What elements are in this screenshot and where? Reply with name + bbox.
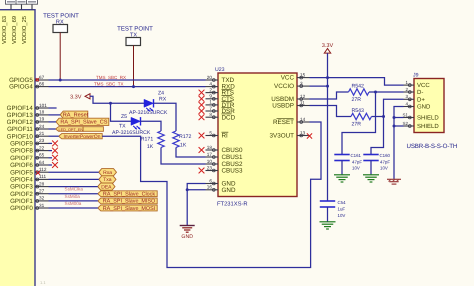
svg-text:GPIOF12: GPIOF12 (7, 119, 34, 126)
svg-text:S2: S2 (402, 121, 408, 126)
wire GPIOF3 to DEA (49, 186, 98, 188)
pin GPIOF9 (23) (10, 138, 48, 147)
test point TX lead wire (133, 46, 135, 87)
test point RX lead wire (59, 33, 61, 81)
wire USBDP to R543 (310, 106, 352, 117)
svg-text:RA_SPI_Slave_MOSI: RA_SPI_Slave_MOSI (103, 206, 155, 212)
pin name VDDIO_83 (1, 16, 8, 44)
svg-text:GPIOF9: GPIOF9 (10, 141, 33, 148)
pin GPIOF11 (24) (7, 124, 48, 133)
LED Z5 (131, 117, 141, 130)
no-ERC DTR (199, 102, 205, 108)
pin GPIOF5 (112) (10, 167, 48, 176)
svg-text:24: 24 (39, 124, 45, 129)
svg-text:23: 23 (207, 165, 213, 170)
svg-text:GPIOF2: GPIOF2 (10, 191, 33, 198)
capacitor C160 label (380, 153, 391, 171)
resistor R172 label (179, 134, 192, 149)
svg-text:9: 9 (209, 94, 212, 99)
resistor R543 (351, 113, 372, 119)
resistor R172 (173, 131, 179, 148)
junction D+ (382, 115, 385, 118)
svg-text:GPIOF6: GPIOF6 (10, 162, 33, 169)
junction VCC (326, 76, 329, 79)
svg-text:15: 15 (300, 72, 306, 77)
svg-text:RI: RI (222, 133, 229, 140)
svg-text:GPIOF7: GPIOF7 (10, 155, 33, 162)
LED Z4 (144, 99, 154, 112)
connector J9 designator (413, 73, 419, 79)
svg-text:R171: R171 (141, 136, 154, 142)
U23 pin 10 CBUS2 (206, 159, 243, 168)
wire C161 to gnd (341, 161, 343, 175)
wire USB GND down (394, 107, 404, 180)
svg-text:R542: R542 (352, 84, 365, 90)
no-ERC GPIOF6 (49, 162, 58, 168)
svg-text:101: 101 (39, 103, 47, 108)
wire GPIOF1 to MISO (49, 200, 98, 202)
svg-text:18: 18 (207, 145, 213, 150)
U23 pin 11 USBDP (272, 100, 309, 109)
svg-text:19: 19 (39, 117, 45, 122)
svg-text:DCD: DCD (222, 114, 236, 121)
svg-text:GPIOF3: GPIOF3 (10, 184, 33, 191)
port RA_Reset (60, 111, 88, 118)
pin GPIOF8 (22) (10, 145, 48, 154)
svg-text:TEST POINT: TEST POINT (117, 26, 153, 33)
test point TX label (117, 26, 153, 39)
svg-text:20: 20 (207, 75, 213, 80)
J9 pin 2 D- (404, 87, 424, 96)
svg-text:2: 2 (209, 87, 212, 92)
wire GPIOF10 to InverterPowerOn (49, 135, 59, 137)
wire to GND symbol (186, 190, 188, 225)
svg-text:S1: S1 (402, 112, 408, 117)
pin GPIOF4 (111) (10, 174, 48, 183)
svg-text:11: 11 (300, 100, 305, 105)
U23 pin 13 3V3OUT (270, 130, 310, 139)
no-ERC RTS (199, 90, 205, 96)
port RA_SPI_Slave_Clock (98, 191, 157, 198)
U23 pin 2 RTS (206, 87, 234, 96)
svg-text:3: 3 (300, 81, 303, 86)
no-ERC DCD (199, 114, 205, 120)
port RA_SPI_Slave_MISO (98, 198, 157, 205)
J9 pin S2 SHIELD (402, 121, 439, 130)
svg-text:22: 22 (39, 145, 45, 150)
port RA_SPI_Slave_CS (56, 118, 109, 125)
svg-text:VCC: VCC (281, 75, 295, 82)
wire GPIOF2 to Clock (49, 193, 98, 195)
U23 pin 4 RXD (206, 81, 236, 90)
svg-text:10V: 10V (352, 166, 360, 171)
svg-text:D+: D+ (417, 96, 425, 103)
wire R172 to CBUS1 (176, 148, 206, 158)
svg-text:18: 18 (39, 110, 45, 115)
U23 pin 17 CBUS1 (206, 152, 243, 161)
pin name VDDIO_25 (21, 16, 28, 44)
svg-text:RA_SPI_Slave_CS: RA_SPI_Slave_CS (60, 120, 107, 126)
svg-text:10V: 10V (380, 166, 388, 171)
svg-text:1: 1 (209, 100, 212, 105)
connector J9 body (414, 79, 444, 133)
U23 pin 23 CBUS3 (206, 165, 243, 174)
junction GND (186, 188, 189, 191)
MCU connector U1 body (0, 10, 35, 286)
capacitor C160 (363, 155, 378, 161)
junction testpoint TX (132, 85, 135, 88)
LED Z4 designator (158, 91, 167, 103)
ground C161 (334, 175, 350, 182)
svg-text:GND: GND (222, 187, 236, 194)
port LED_OPT_EN (56, 127, 104, 132)
svg-text:65: 65 (39, 153, 45, 158)
svg-text:RA_SPI_Slave_MISO: RA_SPI_Slave_MISO (103, 199, 155, 205)
svg-text:4: 4 (209, 81, 212, 86)
no-ERC CBUS3 (199, 168, 205, 174)
U23 pin 1 DTR (206, 100, 235, 109)
svg-text:RA_SPI_Slave_Clock: RA_SPI_Slave_Clock (103, 192, 155, 198)
U23 pin 3 VCCIO (274, 81, 309, 90)
wire GPIOF4 to Txa (49, 178, 99, 180)
U23 pin 9 CTS (206, 94, 235, 103)
svg-text:31: 31 (39, 203, 45, 208)
svg-text:CBUS1: CBUS1 (222, 154, 243, 161)
wire to LED Z5 (111, 103, 132, 121)
svg-text:67: 67 (39, 75, 45, 80)
svg-text:7: 7 (209, 106, 212, 111)
port Rxa (99, 169, 117, 176)
svg-text:VCCIO: VCCIO (274, 83, 294, 90)
pin GPIOF10 (21) (7, 131, 49, 140)
pin VDDIO 25 (top) (27, 0, 38, 10)
svg-text:3.3V: 3.3V (70, 94, 82, 100)
pin GPIOG4 (66) (9, 81, 48, 90)
J9 pin S1 SHIELD (402, 112, 439, 121)
net label SsMiso (65, 194, 81, 199)
no-ERC CTS (199, 96, 205, 102)
IC U23 part FT231XS-R (217, 200, 248, 207)
wire C54 to gnd (327, 207, 329, 222)
junction S2 (393, 125, 396, 128)
wire USBDM to R542 (310, 92, 349, 99)
port Txa (99, 176, 116, 183)
svg-text:6: 6 (209, 178, 212, 183)
pin GPIOF6 (64) (10, 160, 48, 169)
wire 3.3V rail down (327, 53, 329, 201)
svg-text:13: 13 (300, 130, 306, 135)
test point TX pad (126, 38, 141, 46)
wire GPIOF11 to LED_OPT_EN (49, 128, 56, 130)
wire GPIOF0 to MOSI (49, 207, 98, 209)
wire GPIOG4 to RXD (49, 86, 206, 88)
capacitor C54 label (338, 200, 347, 218)
net label TMS_SBC_TX (94, 82, 124, 87)
faint text (40, 280, 46, 285)
svg-text:17: 17 (207, 152, 213, 157)
U23 pin 8 DCD (206, 112, 236, 121)
svg-text:TMS_SBC_TX: TMS_SBC_TX (94, 82, 124, 87)
svg-text:SHIELD: SHIELD (417, 115, 439, 122)
port DEA (98, 183, 115, 190)
wire VCCIO (310, 85, 328, 87)
no-ERC GPIOF7 (49, 155, 58, 161)
svg-text:TMS_SBC_RX: TMS_SBC_RX (96, 75, 126, 80)
net label TMS_SBC_RX (96, 75, 126, 80)
junction LED rail (109, 102, 112, 105)
power port 3.3V left (70, 94, 90, 101)
svg-text:SsMClka: SsMClka (65, 187, 84, 192)
svg-text:SsM00a: SsM00a (65, 201, 82, 206)
svg-text:AP-3216SURCK: AP-3216SURCK (129, 110, 168, 116)
wire C160 to gnd (370, 161, 372, 175)
svg-text:GPIOF1: GPIOF1 (10, 198, 33, 205)
svg-text:R172: R172 (179, 134, 192, 140)
svg-text:27R: 27R (352, 97, 362, 103)
capacitor C161 (334, 155, 349, 161)
wire U23 GND pins (187, 184, 205, 190)
wire D+ to C160 (371, 117, 384, 155)
svg-text:RESET: RESET (273, 119, 294, 126)
power port 3.3V right (322, 43, 334, 53)
wire Z5 cathode to R171 (141, 121, 162, 131)
wire R171 to CBUS2 (161, 148, 206, 165)
svg-text:Txa: Txa (103, 177, 112, 183)
svg-text:GPIOF10: GPIOF10 (7, 133, 34, 140)
svg-text:AP-3216SURCK: AP-3216SURCK (112, 130, 151, 136)
resistor R171 (158, 131, 164, 148)
pin GPIOF7 (65) (10, 153, 48, 162)
resistor R542 label (352, 84, 365, 104)
no-ERC GPIOF8 (49, 148, 58, 154)
svg-text:14: 14 (300, 117, 306, 122)
svg-text:VDDIO_25: VDDIO_25 (21, 16, 28, 44)
svg-text:1K: 1K (147, 144, 154, 150)
svg-text:C54: C54 (338, 200, 347, 205)
capacitor C161 label (351, 153, 363, 171)
LED Z4 part AP-3216SURCK (129, 110, 168, 116)
test point RX label (43, 13, 79, 26)
wire R543 to D+ (372, 99, 404, 116)
svg-text:64: 64 (39, 160, 45, 165)
resistor R171 label (141, 136, 154, 149)
svg-text:GPIOF0: GPIOF0 (10, 205, 33, 212)
wire Z4 cathode to R172 (154, 103, 177, 131)
svg-text:USBR-B-S-S-O-TH: USBR-B-S-S-O-TH (407, 143, 458, 150)
no-ERC DSR (199, 108, 205, 114)
wire R542 to D- (369, 91, 404, 93)
J9 pin 3 D+ (404, 94, 426, 103)
net label SsMosi (65, 201, 82, 206)
wire GPIOF14 stub (49, 107, 57, 109)
svg-text:C160: C160 (380, 153, 391, 158)
svg-text:USBDP: USBDP (272, 103, 294, 110)
svg-text:VCC: VCC (417, 82, 430, 89)
U23 pin 16 GND (206, 185, 236, 194)
svg-text:GPIOF8: GPIOF8 (10, 148, 33, 155)
pin name VDDIO_69 (11, 16, 18, 44)
svg-text:28: 28 (39, 181, 45, 186)
svg-text:Z5: Z5 (121, 114, 127, 120)
svg-text:RA_Reset: RA_Reset (63, 113, 89, 119)
U23 pin 14 RESET (273, 117, 310, 126)
ground C54 (320, 222, 336, 229)
ground GND symbol (180, 226, 195, 240)
U23 pin 12 USBDM (271, 94, 309, 103)
U23 pin 5 RI (206, 130, 229, 139)
junction D- (374, 91, 377, 94)
net label SsMClk (65, 187, 84, 192)
pin GPIOF3 (28) (10, 181, 48, 190)
svg-text:1.1: 1.1 (40, 280, 46, 285)
wire D- to C161 (342, 92, 376, 154)
svg-text:1uF: 1uF (338, 207, 346, 212)
svg-text:GND: GND (181, 234, 193, 240)
svg-text:16: 16 (207, 185, 213, 190)
pin GPIOF12 (19) (7, 117, 49, 126)
wire InverterPowerOn to RESET (102, 122, 321, 268)
pin GPIOF13 (18) (7, 110, 49, 119)
LED Z5 part AP-3216SURCK (112, 130, 151, 136)
resistor R543 label (352, 108, 365, 128)
port RA_SPI_Slave_MOSI (98, 205, 157, 212)
U23 pin 18 CBUS0 (206, 145, 243, 154)
chassis ground (387, 179, 401, 184)
svg-text:27: 27 (39, 189, 45, 194)
pin VDDIO 83 (top) (6, 0, 17, 10)
U23 pin 15 VCC (281, 72, 310, 81)
no-ERC RI (199, 133, 205, 139)
svg-text:SHIELD: SHIELD (417, 123, 439, 130)
svg-text:D-: D- (417, 89, 423, 96)
no-ERC mark GPIOF5 (36, 171, 40, 175)
svg-text:GND: GND (417, 104, 431, 111)
svg-text:R543: R543 (352, 108, 365, 114)
wire GPIOF5 to Rxa (49, 171, 99, 173)
svg-text:GPIOF4: GPIOF4 (10, 177, 33, 184)
svg-text:DEA: DEA (101, 184, 112, 190)
svg-text:8: 8 (209, 112, 212, 117)
no-ERC GPIOF9 (49, 141, 58, 147)
capacitor C54 (320, 201, 335, 207)
svg-text:GPIOF13: GPIOF13 (7, 112, 34, 119)
svg-text:27R: 27R (352, 122, 362, 128)
svg-text:Rxa: Rxa (103, 170, 112, 176)
svg-text:TX: TX (119, 124, 126, 130)
junction S1 (393, 116, 396, 119)
svg-text:CBUS0: CBUS0 (222, 147, 243, 154)
svg-text:10: 10 (207, 159, 213, 164)
port InverterPowerOn (59, 134, 102, 140)
LED Z5 designator (119, 114, 127, 130)
pin VDDIO 69 (top) (16, 0, 27, 10)
svg-text:23: 23 (39, 138, 45, 143)
svg-text:GPIOG4: GPIOG4 (9, 84, 33, 91)
svg-text:12: 12 (300, 94, 306, 99)
svg-text:TEST POINT: TEST POINT (43, 13, 79, 20)
wire VCC to USB VCC (310, 78, 404, 86)
svg-text:1K: 1K (180, 143, 187, 149)
svg-text:VDDIO_83: VDDIO_83 (1, 16, 8, 44)
svg-text:LED_OPT_EN: LED_OPT_EN (58, 128, 83, 132)
svg-text:10V: 10V (338, 213, 346, 218)
svg-text:J9: J9 (413, 73, 419, 79)
IC U23 designator (215, 67, 225, 73)
wire SHIELD S1 (394, 117, 404, 119)
svg-text:111: 111 (39, 174, 47, 179)
wire GPIOF12 to CS (49, 121, 57, 123)
svg-text:GPIOF11: GPIOF11 (7, 126, 33, 133)
pin GPIOF14 (101) (7, 103, 49, 112)
connector J9 part USBR-B-S-S-O-TH (407, 143, 458, 150)
svg-text:SsMi0a: SsMi0a (65, 194, 81, 199)
resistor R542 (349, 89, 370, 95)
no-ERC CBUS0 (199, 147, 205, 153)
U23 pin 7 DSR (206, 106, 236, 115)
svg-text:21: 21 (39, 131, 45, 136)
svg-text:66: 66 (39, 81, 45, 86)
svg-text:3V3OUT: 3V3OUT (270, 133, 295, 140)
wire 3.3V to LED rail (90, 96, 144, 103)
J9 pin 4 GND (404, 101, 432, 110)
svg-text:RX: RX (159, 97, 167, 103)
J9 pin 1 VCC (404, 80, 431, 89)
svg-text:CBUS3: CBUS3 (222, 168, 243, 175)
svg-text:47pF: 47pF (380, 160, 390, 165)
svg-text:GPIOF5: GPIOF5 (10, 169, 33, 176)
no-ERC 3V3OUT (307, 133, 312, 138)
test point RX pad (53, 25, 68, 33)
svg-text:InverterPowerOn: InverterPowerOn (63, 134, 100, 140)
svg-text:C161: C161 (351, 153, 362, 158)
svg-text:U23: U23 (215, 67, 225, 73)
wire SHIELD S2 (394, 125, 404, 127)
svg-text:VDDIO_69: VDDIO_69 (11, 16, 18, 44)
svg-text:47pF: 47pF (352, 160, 362, 165)
pin GPIOF2 (27) (10, 189, 48, 198)
wire GPIOG5 to TXD (49, 79, 206, 81)
svg-text:FT231XS-R: FT231XS-R (217, 200, 248, 207)
svg-text:32: 32 (39, 196, 45, 201)
pin GPIOG5 (67) (9, 75, 48, 84)
junction VCCIO (326, 85, 329, 88)
ground C160 (363, 175, 379, 182)
wire GPIOF13 to RA_Reset (49, 114, 61, 116)
U23 pin 20 TXD (206, 75, 235, 84)
no-ERC mark GPIOG5 (36, 78, 39, 81)
junction testpoint RX (59, 79, 62, 82)
IC U23 body (218, 73, 297, 197)
U23 pin 6 GND (206, 178, 236, 187)
pin GPIOF1 (32) (10, 196, 48, 205)
svg-text:5: 5 (209, 130, 212, 135)
pin GPIOF0 (31) (10, 203, 48, 212)
